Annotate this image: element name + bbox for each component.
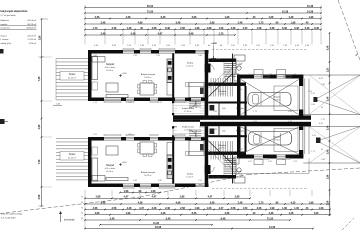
svg-text:3,48: 3,48 bbox=[176, 21, 181, 24]
dimension block left extension line bbox=[85, 5, 321, 31]
svg-text:19,70 m²: 19,70 m² bbox=[273, 139, 281, 142]
upper garage top wall with windows bbox=[237, 75, 303, 79]
svg-text:1.48: 1.48 bbox=[283, 45, 287, 47]
svg-text:56,52: 56,52 bbox=[147, 5, 154, 8]
svg-text:f. terasz:: f. terasz: bbox=[1, 38, 10, 41]
lower bath label bbox=[236, 170, 242, 176]
lower hall label bbox=[218, 145, 227, 150]
lot boundary dashed line top-right bbox=[338, 0, 360, 60]
upper garage entry stoops bbox=[254, 70, 286, 75]
svg-text:5,48: 5,48 bbox=[131, 32, 136, 35]
upper garage car bbox=[248, 93, 291, 107]
svg-text:+4,50: +4,50 bbox=[121, 162, 127, 164]
upper coffee table bbox=[106, 83, 118, 92]
svg-text:4,47: 4,47 bbox=[158, 32, 163, 35]
svg-text:1.06: 1.06 bbox=[270, 45, 274, 47]
svg-text:1.08: 1.08 bbox=[319, 207, 324, 210]
bottom dimension row 7 (43,08) bbox=[84, 226, 314, 230]
upper yard landing outline bbox=[224, 59, 236, 79]
svg-text:4,50 m belm.: 4,50 m belm. bbox=[105, 168, 116, 170]
svg-text:3.68: 3.68 bbox=[311, 104, 315, 106]
svg-text:8.48: 8.48 bbox=[165, 27, 170, 30]
svg-text:90: 90 bbox=[81, 213, 83, 215]
svg-text:1.98: 1.98 bbox=[216, 177, 220, 179]
svg-text:2,38: 2,38 bbox=[95, 16, 100, 19]
svg-text:12,51 m²: 12,51 m² bbox=[186, 65, 194, 68]
bottom dimension row porch bbox=[119, 190, 161, 194]
svg-text:1,98: 1,98 bbox=[151, 190, 156, 193]
svg-text:1,98: 1,98 bbox=[291, 21, 296, 24]
svg-text:2,38: 2,38 bbox=[269, 212, 274, 215]
svg-text:3.48: 3.48 bbox=[294, 27, 299, 30]
roof overhang dashed line below garage bbox=[212, 188, 307, 190]
svg-text:Terasz: Terasz bbox=[69, 73, 77, 76]
svg-text:4.25: 4.25 bbox=[243, 27, 248, 30]
svg-text:4.48: 4.48 bbox=[305, 45, 309, 47]
svg-text:4,98: 4,98 bbox=[138, 21, 143, 24]
svg-text:90: 90 bbox=[81, 202, 83, 204]
svg-text:Előszoba: Előszoba bbox=[236, 108, 243, 110]
upper level mark +4,50 bbox=[119, 73, 127, 77]
bottom dimension block extension lines bbox=[85, 196, 330, 229]
svg-text:11,28: 11,28 bbox=[153, 222, 160, 225]
svg-text:40: 40 bbox=[208, 45, 210, 47]
svg-text:1,98: 1,98 bbox=[225, 16, 230, 19]
svg-text:8.48: 8.48 bbox=[158, 180, 162, 182]
upper living room label Nappali bbox=[105, 63, 116, 72]
lower level mark +4,50 bbox=[119, 162, 127, 166]
svg-text:4.47: 4.47 bbox=[219, 207, 224, 210]
lower unit interior wall hall bbox=[205, 126, 209, 187]
upper hall radiator bbox=[200, 88, 204, 95]
svg-text:5,48: 5,48 bbox=[189, 32, 194, 35]
svg-text:Nappali: Nappali bbox=[106, 63, 115, 66]
lower stairs with diagonal bbox=[209, 141, 234, 167]
svg-text:3.48: 3.48 bbox=[305, 27, 310, 30]
lower garage entry stoops bbox=[254, 160, 286, 165]
svg-text:4,98: 4,98 bbox=[95, 212, 100, 215]
svg-text:4,25: 4,25 bbox=[311, 93, 315, 95]
svg-text:1.48: 1.48 bbox=[127, 27, 132, 30]
lower driveway pillar bbox=[312, 123, 323, 143]
lower kitchen label bbox=[141, 171, 156, 177]
svg-text:1.06: 1.06 bbox=[198, 180, 202, 182]
svg-text:3.68: 3.68 bbox=[93, 180, 97, 182]
svg-text:Garázs: Garázs bbox=[273, 136, 281, 139]
svg-text:4,59 m²: 4,59 m² bbox=[236, 173, 242, 176]
lower driveway sight triangle bbox=[303, 127, 360, 164]
lower garage right wall with garage door opening bbox=[299, 126, 303, 158]
svg-text:Szoba: Szoba bbox=[187, 63, 194, 65]
svg-text:2,7 m² per lakás.: 2,7 m² per lakás. bbox=[1, 14, 17, 17]
svg-text:4,38: 4,38 bbox=[138, 201, 143, 204]
svg-text:4,38: 4,38 bbox=[126, 16, 131, 19]
svg-text:1,73: 1,73 bbox=[259, 201, 264, 204]
svg-text:4.47: 4.47 bbox=[139, 207, 144, 210]
svg-text:1.73: 1.73 bbox=[93, 27, 98, 30]
party wall band lower bbox=[200, 122, 311, 126]
top dimension row 5 (window dims) bbox=[84, 27, 322, 31]
lower dining table with chairs bbox=[138, 142, 157, 157]
lower unit interior wall bath horizontal bbox=[208, 152, 246, 155]
bottom dimension row 6 (11,28) bbox=[99, 222, 213, 226]
svg-text:2.48: 2.48 bbox=[321, 84, 325, 86]
svg-text:90: 90 bbox=[321, 149, 323, 151]
svg-text:1.98: 1.98 bbox=[270, 207, 275, 210]
svg-text:4,50 m belm.: 4,50 m belm. bbox=[105, 67, 116, 69]
svg-text:7,38: 7,38 bbox=[38, 76, 41, 81]
lower center column bottom wall bbox=[209, 175, 237, 179]
lower sideboard bbox=[106, 178, 128, 181]
terrace step dim bbox=[53, 104, 62, 106]
upper driveway pillar bbox=[311, 78, 323, 102]
lower garage car bbox=[249, 132, 292, 146]
upper unit interior wall kitchen/room bbox=[172, 54, 174, 98]
upper garage left wall bbox=[237, 79, 241, 116]
svg-text:4.48: 4.48 bbox=[133, 180, 137, 182]
svg-text:3,48: 3,48 bbox=[210, 201, 215, 204]
svg-text:90: 90 bbox=[321, 107, 323, 109]
svg-text:2.58: 2.58 bbox=[180, 27, 185, 30]
svg-text:4.38: 4.38 bbox=[243, 45, 247, 47]
svg-text:2,48: 2,48 bbox=[327, 125, 330, 130]
svg-text:4,25: 4,25 bbox=[312, 135, 316, 137]
lower hall radiator bbox=[200, 144, 204, 151]
svg-text:3,48: 3,48 bbox=[166, 217, 171, 220]
svg-text:4.38: 4.38 bbox=[152, 27, 157, 30]
party wall band upper bbox=[173, 115, 311, 119]
upper sideboard bbox=[106, 95, 128, 98]
svg-text:6.48: 6.48 bbox=[288, 111, 292, 113]
level mark +4,25 with cross bbox=[211, 42, 218, 61]
svg-text:8,48: 8,48 bbox=[221, 217, 226, 220]
svg-text:1,06: 1,06 bbox=[314, 212, 319, 215]
svg-text:2,48: 2,48 bbox=[161, 212, 166, 215]
right vertical dimension chain bbox=[327, 32, 331, 216]
lower unit top wall living side with windows bbox=[88, 137, 207, 141]
svg-text:18,13 m²: 18,13 m² bbox=[144, 76, 152, 79]
svg-text:2,98: 2,98 bbox=[328, 174, 330, 179]
svg-text:Előszoba: Előszoba bbox=[236, 131, 243, 133]
bottom dimension row 3 bbox=[84, 207, 331, 211]
lower unit bottom exterior wall with windows bbox=[88, 184, 209, 188]
lower kitchen counter bbox=[167, 143, 173, 179]
svg-text:2.58: 2.58 bbox=[231, 207, 236, 210]
upper kitchen counter bbox=[167, 59, 173, 95]
upper driveway sight triangle bbox=[303, 75, 360, 115]
svg-text:1,98: 1,98 bbox=[309, 16, 314, 19]
svg-text:43,08: 43,08 bbox=[155, 226, 162, 229]
svg-text:+4,50: +4,50 bbox=[121, 73, 127, 75]
svg-text:1.50: 1.50 bbox=[128, 102, 132, 104]
svg-text:2.48: 2.48 bbox=[127, 207, 132, 210]
svg-text:15,38: 15,38 bbox=[282, 10, 289, 13]
svg-text:4.38: 4.38 bbox=[93, 207, 98, 210]
roof overhang dashed line above garage bbox=[212, 49, 307, 51]
svg-text:1,98: 1,98 bbox=[124, 190, 129, 193]
lower entry steps bbox=[189, 130, 201, 135]
svg-text:1.73: 1.73 bbox=[253, 111, 257, 113]
svg-text:1.98: 1.98 bbox=[195, 27, 200, 30]
svg-text:2,48: 2,48 bbox=[238, 21, 243, 24]
lower sofa L-shape bbox=[92, 147, 105, 181]
svg-text:40,14 m²: 40,14 m² bbox=[106, 170, 114, 173]
svg-text:1.23: 1.23 bbox=[293, 161, 297, 163]
svg-text:7,38: 7,38 bbox=[38, 159, 41, 164]
svg-text:4.47: 4.47 bbox=[253, 121, 257, 123]
lower unit interior wall wc vertical bbox=[232, 155, 234, 184]
svg-text:2.58: 2.58 bbox=[180, 207, 185, 210]
upper sofa L-shape bbox=[92, 57, 105, 91]
svg-text:4.38: 4.38 bbox=[152, 45, 156, 47]
lower garage left wall bbox=[237, 126, 241, 154]
svg-text:3.48: 3.48 bbox=[152, 207, 157, 210]
upper shower cabin bbox=[210, 105, 244, 111]
svg-text:40: 40 bbox=[220, 45, 222, 47]
upper bath label bbox=[236, 63, 242, 69]
svg-text:8.48: 8.48 bbox=[314, 27, 319, 30]
lower exterior stair flight bbox=[225, 159, 237, 176]
lower hall wall pier bbox=[205, 165, 211, 174]
top dimension row 4 bbox=[84, 21, 322, 25]
svg-text:2.58: 2.58 bbox=[112, 207, 117, 210]
svg-text:90: 90 bbox=[81, 218, 83, 220]
svg-text:3.48: 3.48 bbox=[140, 45, 144, 47]
svg-text:Fedett terasz: Fedett terasz bbox=[182, 126, 194, 129]
svg-text:2.58: 2.58 bbox=[127, 45, 131, 47]
svg-text:Zuh.: Zuh. bbox=[222, 131, 226, 133]
svg-text:90: 90 bbox=[212, 60, 214, 62]
svg-text:1,08: 1,08 bbox=[269, 16, 274, 19]
svg-text:Garázs: Garázs bbox=[273, 96, 281, 99]
upper unit interior wall bath/garage bbox=[245, 86, 247, 116]
svg-text:4,47: 4,47 bbox=[208, 196, 213, 199]
svg-text:szintvonal: szintvonal bbox=[64, 219, 75, 222]
svg-text:emelet:: emelet: bbox=[1, 23, 9, 26]
svg-text:4,48: 4,48 bbox=[289, 16, 294, 19]
svg-text:4,48: 4,48 bbox=[289, 212, 294, 215]
svg-text:71,05: 71,05 bbox=[147, 10, 154, 13]
svg-text:101,4 m²: 101,4 m² bbox=[27, 19, 36, 22]
svg-text:20,14 m²: 20,14 m² bbox=[68, 156, 76, 159]
svg-text:20,14 m²: 20,14 m² bbox=[68, 76, 76, 79]
svg-text:2,58: 2,58 bbox=[328, 200, 330, 205]
bottom dimension row 4 bbox=[84, 212, 331, 216]
svg-text:a kerítés építési helye:: a kerítés építési helye: bbox=[1, 213, 23, 216]
svg-text:4.25: 4.25 bbox=[239, 149, 243, 151]
svg-text:Fürdő: Fürdő bbox=[237, 170, 242, 173]
svg-text:90: 90 bbox=[81, 196, 83, 198]
lower unit partition zuh bbox=[218, 126, 220, 135]
svg-text:3,48: 3,48 bbox=[101, 21, 106, 24]
svg-text:4.48: 4.48 bbox=[288, 121, 292, 123]
svg-text:1.06: 1.06 bbox=[256, 45, 260, 47]
svg-text:4.25: 4.25 bbox=[268, 161, 272, 163]
svg-text:+4,25: +4,25 bbox=[211, 42, 217, 45]
svg-text:3.68: 3.68 bbox=[257, 207, 262, 210]
room area schedule text block bbox=[0, 10, 37, 45]
bottom dimension row 1 bbox=[84, 196, 251, 200]
lower unit left exterior wall bbox=[88, 137, 92, 187]
upper unit left exterior wall bbox=[88, 50, 92, 101]
svg-text:8,48: 8,48 bbox=[192, 212, 197, 215]
witness lines above bottom dimensions bbox=[85, 190, 330, 196]
note text bottom-left bbox=[1, 213, 23, 220]
svg-text:14,38: 14,38 bbox=[307, 10, 314, 13]
left vertical dimension chain bbox=[38, 18, 52, 207]
upper garage cross lines bbox=[241, 80, 299, 115]
upper center column top wall bbox=[209, 59, 237, 63]
svg-text:1,73: 1,73 bbox=[259, 21, 264, 24]
svg-text:1.50: 1.50 bbox=[243, 207, 248, 210]
svg-text:1,98: 1,98 bbox=[309, 201, 314, 204]
lower coffee table bbox=[106, 146, 118, 155]
upper bedroom label Szoba bbox=[186, 63, 194, 68]
svg-text:1.06: 1.06 bbox=[248, 74, 252, 76]
upper entry steps bbox=[189, 102, 201, 107]
upper unit interior wall wc vertical bbox=[232, 54, 234, 83]
top dimension row 3 bbox=[84, 16, 322, 20]
svg-text:4.38: 4.38 bbox=[231, 27, 236, 30]
svg-text:8,48: 8,48 bbox=[161, 16, 166, 19]
upper stairs with diagonal bbox=[209, 71, 234, 97]
svg-text:1,50: 1,50 bbox=[328, 67, 330, 72]
svg-text:2,48: 2,48 bbox=[110, 217, 115, 220]
lot boundary dash bottom-right corner bbox=[342, 218, 354, 230]
lower unit interior wall bath/garage bbox=[245, 126, 247, 151]
svg-text:17,41 m²: 17,41 m² bbox=[184, 110, 192, 113]
svg-text:1.23: 1.23 bbox=[321, 119, 325, 121]
svg-text:8.48: 8.48 bbox=[198, 55, 202, 57]
upper porch fedett terasz bbox=[172, 101, 205, 116]
svg-text:15,38: 15,38 bbox=[307, 5, 314, 8]
section marker left edge upper bbox=[0, 49, 4, 54]
svg-text:119,54 m²: 119,54 m² bbox=[26, 27, 36, 30]
upper unit interior wall hall bbox=[205, 50, 209, 116]
upper hall wall pier bbox=[205, 64, 211, 73]
upper kitchen label bbox=[141, 73, 156, 79]
svg-text:1.06: 1.06 bbox=[231, 45, 235, 47]
svg-text:3,68: 3,68 bbox=[192, 16, 197, 19]
svg-text:90: 90 bbox=[81, 208, 83, 210]
lower bed with nightstands bbox=[186, 141, 205, 156]
lower entry door arc bbox=[189, 130, 196, 137]
svg-text:Étkező+konyha: Étkező+konyha bbox=[141, 73, 156, 76]
svg-text:terasz:: terasz: bbox=[1, 35, 8, 38]
svg-text:1,48: 1,48 bbox=[56, 104, 60, 106]
lower living room label Nappali bbox=[105, 164, 116, 173]
svg-text:4,25: 4,25 bbox=[291, 201, 296, 204]
top dimension row 6 (partial) bbox=[84, 32, 236, 36]
top dimension row 2 (71,05) bbox=[84, 10, 322, 14]
svg-text:2,98: 2,98 bbox=[210, 21, 215, 24]
top dimension row 1 (overall 56,52) bbox=[84, 5, 322, 9]
svg-text:2,48: 2,48 bbox=[101, 32, 106, 35]
bottom dimension row 2 bbox=[84, 201, 330, 205]
upper bed with nightstands bbox=[186, 83, 205, 98]
upper garage parking space outline bbox=[274, 86, 298, 111]
svg-text:4,98: 4,98 bbox=[176, 201, 181, 204]
witness extension lines below top dimensions bbox=[85, 31, 321, 45]
svg-text:1.06: 1.06 bbox=[294, 207, 299, 210]
svg-text:20,14 m²: 20,14 m² bbox=[27, 35, 36, 38]
svg-text:2,58: 2,58 bbox=[38, 194, 41, 199]
lot boundary dashed line bottom-left bbox=[0, 168, 360, 214]
svg-text:4,25: 4,25 bbox=[319, 78, 323, 80]
svg-text:2.58: 2.58 bbox=[156, 55, 160, 57]
svg-text:4.47: 4.47 bbox=[248, 161, 252, 163]
lower bedroom label Szoba bbox=[186, 174, 194, 179]
svg-text:3.48: 3.48 bbox=[213, 111, 217, 113]
svg-text:2,88: 2,88 bbox=[235, 196, 240, 199]
svg-text:1.08: 1.08 bbox=[257, 27, 262, 30]
svg-text:71,05: 71,05 bbox=[267, 217, 274, 220]
svg-text:30,13 m²: 30,13 m² bbox=[27, 23, 36, 26]
party wall left segment between porches bbox=[173, 120, 200, 122]
svg-text:Zuh.: Zuh. bbox=[222, 108, 226, 110]
bottom dimension row 5 bbox=[84, 217, 291, 221]
svg-text:2,88: 2,88 bbox=[40, 35, 42, 40]
lower garage cross lines bbox=[241, 127, 299, 154]
svg-text:1.73: 1.73 bbox=[311, 151, 315, 153]
svg-text:4.48: 4.48 bbox=[94, 45, 98, 47]
window sill projections bbox=[104, 48, 291, 189]
svg-text:Terasz: Terasz bbox=[69, 153, 77, 156]
lower unit interior wall entry row bbox=[208, 135, 247, 137]
svg-text:2.88: 2.88 bbox=[93, 55, 97, 57]
svg-text:1.06: 1.06 bbox=[282, 207, 287, 210]
lower porch fedett terasz bbox=[172, 125, 205, 138]
upper unit partition zuh bbox=[218, 104, 220, 116]
svg-text:90: 90 bbox=[212, 177, 214, 179]
svg-text:90: 90 bbox=[240, 89, 242, 91]
scattered small dimension texts bbox=[81, 55, 325, 220]
lower unit interior wall kitchen/room bbox=[172, 141, 174, 184]
svg-text:1.06: 1.06 bbox=[93, 134, 97, 136]
svg-text:földszint:: földszint: bbox=[1, 19, 10, 22]
lower interior door arcs bbox=[208, 156, 232, 174]
svg-text:Nappali: Nappali bbox=[106, 164, 115, 167]
svg-text:4.38: 4.38 bbox=[270, 27, 275, 30]
svg-text:2.48: 2.48 bbox=[112, 27, 117, 30]
upper hall label bbox=[218, 91, 227, 96]
svg-text:14,36: 14,36 bbox=[269, 226, 276, 229]
svg-text:1,98: 1,98 bbox=[126, 212, 131, 215]
upper exterior stair flight bbox=[225, 62, 237, 79]
svg-text:4.48: 4.48 bbox=[195, 45, 199, 47]
upper entry door arc bbox=[189, 101, 196, 108]
svg-text:erkély (x2):: erkély (x2): bbox=[1, 42, 12, 45]
svg-text:2.48: 2.48 bbox=[165, 207, 170, 210]
svg-text:4.38: 4.38 bbox=[295, 45, 299, 47]
svg-text:1.98: 1.98 bbox=[133, 55, 137, 57]
svg-text:8.48: 8.48 bbox=[112, 45, 116, 47]
upper unit top exterior wall with windows bbox=[88, 50, 209, 54]
section marker left edge bbox=[0, 119, 8, 124]
upper interior door arcs bbox=[208, 64, 232, 82]
svg-text:1.98: 1.98 bbox=[195, 207, 200, 210]
svg-text:17,41 m²: 17,41 m² bbox=[27, 38, 36, 41]
svg-text:1.73: 1.73 bbox=[216, 59, 220, 61]
lower terrace with decking and label bbox=[56, 139, 88, 180]
svg-text:2,88: 2,88 bbox=[180, 196, 185, 199]
svg-text:2,48: 2,48 bbox=[238, 201, 243, 204]
svg-text:4,25: 4,25 bbox=[319, 123, 323, 125]
upper dining table with chairs bbox=[138, 81, 157, 96]
svg-text:90: 90 bbox=[294, 74, 296, 76]
upper garage label bbox=[273, 96, 281, 102]
upper unit bottom wall living side with windows and entry door bbox=[88, 98, 207, 102]
